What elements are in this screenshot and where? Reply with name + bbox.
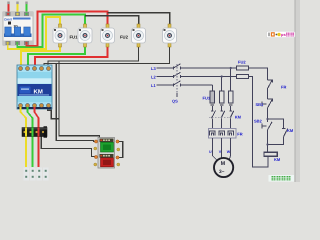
wire through FR (green): [32, 128, 34, 137]
motor M: [214, 158, 233, 177]
wire contactor to FR (green): [28, 107, 33, 167]
circuit breaker QF (3-pole MCB): [3, 12, 33, 45]
fuse caps: [211, 103, 215, 106]
svg-text:3~: 3~: [219, 169, 225, 175]
contactor KM: [17, 65, 52, 109]
wire contactor aux joins rail A (black): [48, 107, 60, 119]
svg-text:U: U: [209, 150, 212, 154]
contact FR NC: [268, 80, 273, 99]
svg-text:QS: QS: [172, 99, 178, 104]
fuse FU1 schematic 2: [220, 91, 224, 103]
wire L3 down: [230, 68, 232, 91]
coil KM: [264, 152, 277, 156]
fuse FU1 schematic 1: [210, 91, 214, 103]
FR heater 1: [210, 131, 215, 136]
button SB2: [262, 119, 272, 152]
wire rail B down to button terminal (black): [56, 64, 95, 142]
wire FU1 fuse2 to contactor T2 (green): [28, 45, 85, 66]
svg-text:L2: L2: [151, 75, 156, 80]
switch QS link: [176, 64, 178, 93]
floating toolbar: [267, 31, 296, 38]
wire through FR (red): [38, 128, 40, 137]
fuse FU1-2: [78, 24, 92, 47]
svg-text:FR: FR: [281, 85, 286, 90]
contact KM 1: [211, 106, 215, 129]
wire FU2 fuse5 to control rail B (black): [44, 45, 170, 66]
svg-text:KM: KM: [34, 89, 43, 96]
wire L2 down: [221, 77, 223, 92]
wire tap to FU2 fuse5 (black): [108, 13, 170, 26]
wires FR to motor: [212, 138, 217, 161]
switch QS blade 3: [174, 81, 181, 87]
wire L2 supply (yellow): [16, 2, 18, 14]
junction dots: [221, 67, 269, 146]
wire tap to FU2 fuse4 (black): [85, 16, 139, 26]
svg-text:L3: L3: [151, 66, 156, 71]
svg-text:SB1: SB1: [256, 102, 265, 107]
svg-text:W: W: [227, 150, 231, 154]
wire contactor to FR (red): [35, 107, 39, 167]
fuse FU1-3: [101, 24, 115, 47]
svg-text:KM: KM: [287, 128, 294, 133]
switch QS blade 1: [174, 64, 181, 70]
fuse FU2-2: [163, 24, 177, 47]
FR heater 3: [228, 131, 233, 136]
wire contactor to FR (yellow): [21, 107, 27, 167]
button SB1: [262, 99, 273, 119]
control: L3 to FU2: [237, 66, 249, 70]
right panel strip: [295, 0, 300, 182]
wire FU2 fuse4 to control rail A (black): [48, 45, 139, 66]
status hint box: [269, 175, 295, 182]
node L3 line: [157, 67, 174, 69]
thermal relay FR: [22, 126, 47, 137]
svg-text:FU1: FU1: [70, 35, 79, 40]
FR heater 2: [219, 131, 224, 136]
svg-text:CHNT: CHNT: [4, 18, 12, 22]
wire breaker to FU1 fuse2 (green): [17, 15, 85, 48]
wire FU1 fuse3 to contactor T3 (red): [35, 45, 108, 66]
contact KM 3: [230, 106, 234, 129]
wire breaker to FU1 fuse3 (red): [27, 12, 108, 46]
svg-text:ps: ps: [281, 32, 286, 37]
contact KM aux branch: [268, 119, 288, 145]
wire through FR (yellow): [25, 128, 27, 137]
contact KM 2: [221, 106, 225, 129]
svg-text:KM: KM: [274, 157, 281, 162]
relay FR box: [208, 129, 236, 138]
wire button jumper (black): [118, 142, 123, 158]
fuse FU2-1: [132, 24, 146, 47]
node L2 line: [157, 76, 174, 78]
wire L1 supply (red): [7, 2, 9, 14]
svg-text:L1: L1: [151, 83, 156, 88]
wire rail A down to button panel (black): [59, 61, 100, 140]
wire thermal relay to button (black): [41, 137, 95, 157]
fuse FU1-1: [53, 24, 67, 47]
terminal block: [24, 168, 49, 181]
wire breaker to FU1 fuse1 (yellow): [8, 17, 60, 49]
svg-text:FU2: FU2: [238, 60, 246, 65]
node L1 line: [157, 84, 174, 86]
wire L1 down: [211, 85, 213, 91]
fuse FU1 schematic 3: [229, 91, 233, 103]
switch QS blade 2: [174, 72, 181, 78]
svg-text:FU1: FU1: [203, 96, 211, 101]
svg-text:FR: FR: [237, 132, 242, 137]
svg-text:KM: KM: [235, 115, 242, 120]
wire L3 supply (green): [25, 2, 27, 14]
wire FU1 fuse1 to contactor T1 (yellow): [21, 45, 60, 66]
svg-text:FU2: FU2: [120, 35, 129, 40]
svg-text:SB2: SB2: [254, 119, 263, 124]
contact KM link: [209, 116, 233, 118]
button station SB1/SB2: [94, 138, 120, 169]
svg-text:M: M: [221, 161, 226, 167]
schematic labels: [151, 60, 294, 163]
